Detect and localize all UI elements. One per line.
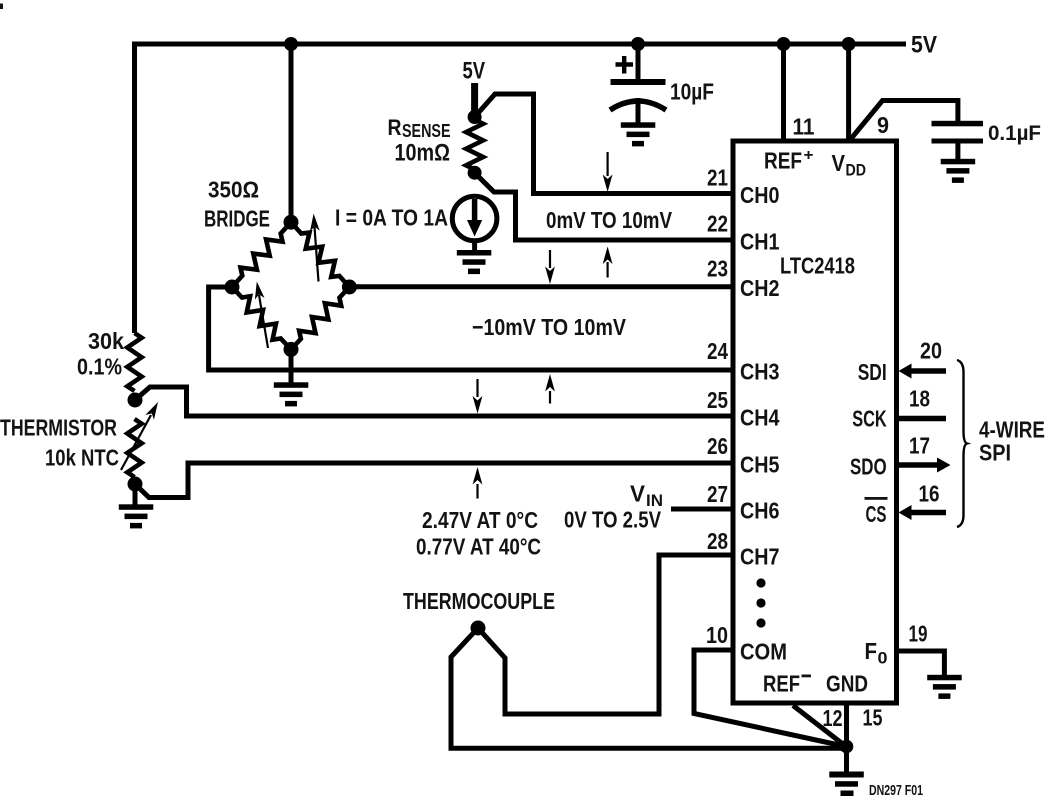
wire 5V top rail	[132, 42, 906, 47]
resistor R1 30k	[127, 333, 141, 391]
svg-text:THERMISTOR: THERMISTOR	[0, 415, 117, 441]
svg-text:SCK: SCK	[852, 406, 887, 432]
svg-text:LTC2418: LTC2418	[780, 253, 855, 279]
svg-text:22: 22	[707, 211, 728, 237]
capacitor C1 10uF plus sign	[616, 56, 634, 74]
bridge resistor top-right	[286, 218, 355, 292]
wire current source to ground stem	[472, 239, 477, 251]
node rail-REF+	[777, 37, 791, 51]
svg-text:19: 19	[909, 621, 928, 647]
arrow through bridge resistor bottom-left	[252, 281, 268, 348]
svg-text:12: 12	[823, 705, 843, 731]
ground at thermistor	[119, 504, 154, 528]
svg-text:DD: DD	[846, 162, 867, 180]
SPI pin CS arrow pin 16	[899, 505, 947, 520]
svg-text:DN297 F01: DN297 F01	[869, 782, 923, 799]
svg-text:15: 15	[863, 705, 883, 731]
svg-text:350Ω: 350Ω	[208, 177, 259, 203]
bridge resistor left-bottom	[227, 282, 296, 353]
node GND junction	[840, 740, 854, 754]
svg-text:9: 9	[877, 112, 889, 138]
capacitor C1 10uF	[610, 79, 666, 110]
svg-text:10k NTC: 10k NTC	[45, 445, 119, 471]
ground at GND junction	[829, 772, 864, 797]
corner mark	[0, 4, 3, 10]
svg-text:2.47V AT 0°C: 2.47V AT 0°C	[422, 507, 538, 533]
arrow down to CH0	[603, 152, 613, 192]
svg-text:THERMOCOUPLE: THERMOCOUPLE	[403, 588, 555, 614]
svg-text:CH5: CH5	[740, 452, 780, 478]
IC U1 LTC2418 body	[733, 141, 897, 703]
wire thermocouple left lead to GND node	[451, 628, 846, 748]
wire bridge top feed	[289, 44, 294, 222]
svg-text:20: 20	[920, 338, 942, 364]
SPI pin SDI arrow pin 20	[899, 364, 947, 379]
svg-text:16: 16	[919, 481, 940, 507]
node bridge right	[342, 280, 357, 295]
thermistor RT1 10k NTC	[127, 419, 141, 477]
svg-text:10: 10	[706, 622, 728, 648]
ground at bridge	[274, 382, 309, 406]
wire 10uF arc to ground stem	[636, 98, 641, 123]
node rail-VDD	[842, 37, 856, 51]
wire thermistor bottom to CH5	[135, 463, 733, 498]
IC pin dots ellipsis	[756, 578, 765, 627]
svg-text:27: 27	[707, 481, 728, 507]
arrow through thermistor	[121, 400, 162, 470]
wire thermistor ground stem	[133, 484, 138, 505]
svg-text:23: 23	[707, 255, 728, 281]
capacitor C2 0.1uF	[932, 121, 984, 144]
wire COM to GND node	[694, 650, 846, 747]
wire 10uF stub	[636, 44, 641, 80]
svg-text:+: +	[804, 147, 814, 164]
wire bridge left node to CH3	[209, 287, 733, 370]
svg-text:I = 0A TO 1A: I = 0A TO 1A	[335, 205, 448, 231]
SPI pin SCK line pin 18	[899, 416, 946, 422]
wire thermocouple right lead to CH7	[478, 555, 733, 714]
wire REF+ pin 11 stub	[781, 44, 786, 141]
svg-text:V: V	[832, 150, 846, 176]
bridge resistor left-top	[227, 218, 296, 292]
svg-text:GND: GND	[826, 671, 868, 697]
wire RSENSE top to CH0	[475, 94, 733, 194]
wire RSENSE bottom to CH1	[475, 173, 733, 240]
svg-text:CH3: CH3	[740, 359, 780, 385]
brace 4-wire SPI	[957, 360, 967, 527]
arrow through bridge resistor top-right	[309, 213, 320, 281]
node rail-bridge	[284, 37, 298, 51]
wire VDD to 0.1uF	[850, 101, 958, 141]
ground at 0.1uF	[941, 159, 976, 183]
node thermistor-ground junction	[128, 477, 143, 492]
wire F0 pin 19 to ground	[896, 651, 944, 676]
node bridge bottom	[284, 342, 299, 357]
svg-text:26: 26	[707, 433, 728, 459]
svg-text:REF: REF	[763, 671, 800, 697]
svg-text:0: 0	[878, 650, 888, 668]
wire GND pin stem to ground	[844, 703, 849, 772]
svg-text:25: 25	[707, 387, 728, 413]
svg-text:0mV TO 10mV: 0mV TO 10mV	[546, 207, 673, 233]
wire left rail down to 30k	[132, 42, 137, 334]
wire 5V thick stub to RSENSE	[471, 83, 478, 117]
svg-text:−10mV TO 10mV: −10mV TO 10mV	[472, 314, 627, 340]
svg-text:5V: 5V	[911, 32, 937, 59]
svg-text:SENSE: SENSE	[402, 120, 451, 141]
svg-text:COM: COM	[740, 639, 787, 665]
svg-text:CH6: CH6	[740, 498, 780, 524]
ground at current source	[457, 250, 492, 274]
current source I1 0A-1A	[452, 196, 497, 241]
wire bridge bottom to ground	[289, 349, 294, 383]
svg-text:0V TO 2.5V: 0V TO 2.5V	[564, 507, 662, 533]
svg-text:R: R	[388, 115, 402, 140]
svg-text:CH1: CH1	[740, 229, 780, 255]
svg-text:F: F	[865, 638, 878, 664]
arrow down to CH4	[473, 379, 483, 414]
node rail-10uF	[631, 37, 645, 51]
resistor RSENSE 10mOhm	[466, 120, 483, 170]
svg-text:10mΩ: 10mΩ	[395, 140, 451, 167]
svg-text:CS: CS	[866, 501, 887, 527]
wire VDD pin 9 stub	[846, 44, 851, 141]
ground at F0	[927, 675, 962, 699]
svg-text:11: 11	[793, 114, 815, 140]
svg-text:REF: REF	[764, 148, 802, 174]
svg-text:10µF: 10µF	[670, 79, 714, 105]
arrow up to CH1	[603, 247, 613, 278]
svg-text:18: 18	[909, 386, 930, 412]
svg-text:SDI: SDI	[858, 359, 887, 385]
wire bridge right node to CH2	[349, 284, 733, 289]
node thermocouple ball	[471, 621, 486, 636]
svg-text:0.77V AT 40°C: 0.77V AT 40°C	[416, 534, 541, 560]
arrow up to CH3	[545, 374, 555, 404]
svg-text:CH2: CH2	[740, 275, 780, 301]
node 30k-thermistor junction	[128, 393, 143, 408]
node bridge left	[225, 280, 240, 295]
svg-text:CH4: CH4	[740, 405, 780, 431]
arrow up to CH5	[473, 467, 483, 499]
svg-text:28: 28	[707, 528, 728, 554]
node RSENSE bottom	[468, 166, 482, 180]
wire VIN to CH6	[671, 507, 733, 512]
wire 0.1uF bottom stem	[955, 142, 960, 160]
svg-text:17: 17	[909, 433, 930, 459]
arrow down to CH2	[545, 250, 555, 284]
svg-text:21: 21	[707, 164, 728, 190]
node bridge top	[284, 215, 299, 230]
svg-text:5V: 5V	[463, 58, 486, 85]
bridge resistor bottom-right	[286, 282, 354, 354]
svg-text:24: 24	[707, 338, 728, 364]
svg-text:0.1µF: 0.1µF	[988, 121, 1041, 145]
svg-text:SDO: SDO	[850, 454, 887, 480]
svg-text:CH0: CH0	[740, 182, 780, 208]
ground at 10uF	[621, 122, 656, 146]
wire REF- to GND node	[793, 706, 846, 747]
svg-text:V: V	[630, 481, 646, 507]
node RSENSE top	[468, 110, 482, 124]
svg-text:SPI: SPI	[979, 440, 1011, 466]
svg-text:BRIDGE: BRIDGE	[204, 206, 270, 232]
svg-text:30k: 30k	[88, 328, 124, 354]
SPI pin SDO arrow pin 17	[899, 458, 951, 473]
svg-text:0.1%: 0.1%	[77, 354, 122, 380]
wire 30k junction to CH4	[135, 387, 733, 416]
svg-text:CH7: CH7	[740, 544, 780, 570]
